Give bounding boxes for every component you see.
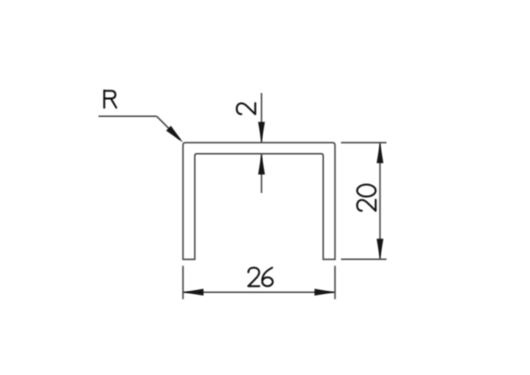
dim 26 dimension line: [183, 291, 335, 293]
dim 26 extension line left: [182, 266, 184, 299]
R leader arrowhead: [166, 126, 183, 143]
dim 20 extension line top: [341, 142, 387, 144]
dim 20 value label: digit 0 (rotated): [357, 185, 376, 197]
U-channel profile outline: [183, 143, 335, 260]
dim 26 value label: digit 6: [262, 268, 273, 287]
dim 2 value label: digit 2 (rotated): [237, 103, 256, 114]
dim 26 arrow left: [183, 289, 204, 296]
dim 26 extension line right: [334, 266, 336, 299]
R leader line diagonal: [157, 116, 180, 139]
dim 26 arrow right: [315, 289, 336, 296]
dim 20 arrow top: [377, 143, 384, 164]
dim 20 dimension line: [379, 143, 381, 260]
dim 2 upper shaft: [261, 93, 263, 142]
dim 2 lower shaft: [261, 154, 263, 193]
radius label R: [104, 91, 116, 108]
dim 20 extension line bottom: [341, 258, 387, 260]
dim 2 upper arrow (points down): [258, 122, 265, 142]
R leader line horizontal: [99, 115, 157, 117]
dim 20 value label: digit 2 (rotated): [357, 200, 376, 211]
dim 20 arrow bottom: [377, 239, 384, 259]
dim 26 value label: digit 2: [248, 268, 259, 287]
dim 2 lower arrow (points up): [258, 154, 265, 175]
